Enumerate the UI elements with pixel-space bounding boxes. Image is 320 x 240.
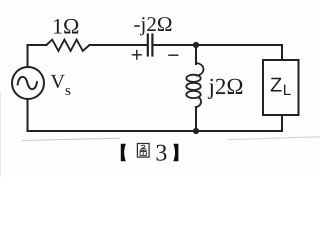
source sine symbol (18, 77, 37, 89)
wire right vertical into ZL (281, 45, 283, 60)
node A junction dot (top) (193, 42, 199, 48)
inductor loop 3 (186, 91, 200, 98)
svg-text:j2Ω: j2Ω (208, 74, 244, 99)
wire capacitor to node A (154, 44, 197, 46)
inductor exit hook (196, 98, 201, 108)
caption right lenticular bracket (173, 144, 178, 162)
svg-text:1Ω: 1Ω (52, 14, 79, 39)
wire left vertical below source (27, 99, 29, 131)
wire top-left horizontal (28, 44, 47, 46)
caption left lenticular bracket (121, 144, 126, 162)
inductor L j2ohm entry hook (196, 63, 204, 76)
wire ZL to bottom (281, 115, 283, 131)
wire bottom (28, 130, 283, 132)
caption glyph TU (figure) (137, 144, 149, 158)
wire inductor to bottom node (195, 107, 197, 131)
svg-text:ZL: ZL (270, 75, 291, 100)
svg-text:Vs: Vs (51, 71, 71, 99)
load ZL box (263, 60, 299, 115)
source VS circle (12, 67, 44, 99)
capacitor minus sign (168, 54, 178, 56)
resistor R 1ohm zigzag (47, 40, 90, 51)
capacitor plus sign (132, 50, 142, 60)
inductor loop 2 (186, 83, 200, 90)
svg-text:-j2Ω: -j2Ω (134, 12, 173, 36)
wire node A to top-right corner (196, 44, 282, 46)
wire left vertical above source (27, 45, 29, 67)
node B junction dot (bottom) (193, 128, 199, 134)
wire resistor to capacitor (90, 44, 147, 46)
wire node A down to inductor (195, 45, 197, 64)
svg-text:3: 3 (155, 141, 167, 167)
capacitor C -j2ohm plates (147, 35, 149, 56)
inductor loop 1 (186, 75, 200, 82)
